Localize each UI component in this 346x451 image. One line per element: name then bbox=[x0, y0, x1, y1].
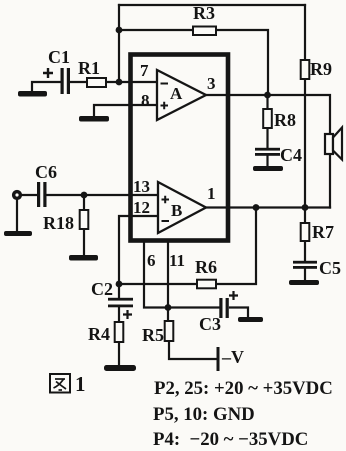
node pin6/pin11/C3 bbox=[165, 304, 172, 311]
capacitor C5 plates bbox=[293, 261, 317, 269]
wire C6 to pin 13 bbox=[46, 194, 158, 196]
wire input A: ground to C1 bbox=[32, 82, 61, 91]
capacitor C1 plates bbox=[61, 68, 71, 94]
svg-text:1: 1 bbox=[75, 372, 86, 396]
svg-text:R7: R7 bbox=[312, 222, 334, 242]
wire C1 to R1 bbox=[70, 81, 87, 83]
ground below C5 bbox=[289, 280, 319, 285]
ground below C4 bbox=[253, 166, 283, 171]
resistor R18 bbox=[80, 210, 89, 229]
wire input B terminal to C6 bbox=[22, 194, 37, 196]
wire terminal ground drop bbox=[16, 200, 18, 231]
wire pin 6 down bbox=[144, 243, 168, 308]
node output A / R8 bbox=[264, 92, 271, 99]
svg-text:B: B bbox=[171, 201, 182, 220]
svg-text:8: 8 bbox=[141, 91, 150, 110]
svg-text:11: 11 bbox=[169, 251, 185, 270]
battery terminal -V bbox=[217, 347, 220, 371]
resistor R4 bbox=[115, 322, 124, 342]
svg-text:12: 12 bbox=[133, 198, 150, 217]
svg-text:–V: –V bbox=[221, 347, 244, 367]
svg-text:6: 6 bbox=[147, 251, 156, 270]
wire R4 to ground bbox=[118, 342, 120, 365]
svg-text:R1: R1 bbox=[78, 58, 100, 78]
svg-text:C1: C1 bbox=[48, 47, 70, 67]
wire vertical left feedback x=119 bbox=[118, 5, 120, 82]
svg-text:R3: R3 bbox=[193, 3, 215, 23]
svg-text:R4: R4 bbox=[88, 324, 110, 344]
capacitor C3 plus sign bbox=[229, 291, 238, 300]
svg-text:13: 13 bbox=[133, 177, 150, 196]
wire output A pin 3 to speaker top bbox=[206, 95, 330, 134]
svg-text:P2, 25: +20 ~ +35VDC: P2, 25: +20 ~ +35VDC bbox=[154, 378, 333, 399]
svg-text:R8: R8 bbox=[274, 110, 296, 130]
node output B / R6 bbox=[253, 204, 260, 211]
input terminal J1 bbox=[12, 190, 22, 200]
capacitor C3 plates bbox=[219, 298, 229, 318]
op-amp U1B plus sign bbox=[162, 196, 170, 204]
wire R5 to -V battery bbox=[169, 341, 218, 359]
resistor R5 bbox=[165, 321, 174, 341]
node C6/R18 bbox=[81, 192, 88, 199]
svg-text:R18: R18 bbox=[43, 213, 74, 233]
IC package U1 outline bbox=[131, 55, 229, 241]
node output B / R7 bbox=[302, 204, 309, 211]
svg-text:R6: R6 bbox=[195, 257, 217, 277]
junction node dots bbox=[81, 27, 309, 311]
ground below R4 bbox=[104, 365, 136, 371]
wire R8 to C4 bbox=[266, 128, 268, 166]
resistor R1 bbox=[87, 78, 106, 87]
wire speaker through bbox=[329, 134, 331, 208]
node pin12 / C2 / R6 wire bbox=[116, 281, 123, 288]
op-amp U1B minus sign bbox=[162, 220, 170, 222]
wire R8 lead from output A node bbox=[266, 95, 268, 109]
wire pin 8 to ground bbox=[94, 105, 157, 116]
capacitor C2 plus sign bbox=[123, 310, 132, 319]
resistor R7 bbox=[301, 223, 310, 241]
svg-text:C5: C5 bbox=[319, 258, 341, 278]
svg-text:R9: R9 bbox=[310, 59, 332, 79]
ground at C1 input bbox=[18, 91, 47, 97]
wire R3 right segment down to output A node bbox=[216, 30, 268, 95]
wire R6 right vertical to output B node bbox=[216, 208, 256, 285]
wire R9 top connection bbox=[304, 5, 306, 60]
resistor R6 bbox=[197, 280, 216, 289]
svg-text:A: A bbox=[170, 84, 183, 103]
svg-text:R5: R5 bbox=[142, 325, 164, 345]
svg-text:C4: C4 bbox=[280, 145, 302, 165]
wire C2 leads bbox=[118, 284, 120, 322]
svg-text:1: 1 bbox=[207, 184, 216, 203]
op-amp U1A minus sign bbox=[161, 83, 169, 85]
svg-text:C6: C6 bbox=[35, 162, 57, 182]
op-amp U1A plus sign bbox=[161, 102, 169, 110]
wire output B pin 1 to speaker bottom bbox=[206, 206, 330, 208]
figure caption 图 1 (drawn glyph) bbox=[50, 374, 70, 393]
svg-text:3: 3 bbox=[207, 74, 216, 93]
resistor R3 bbox=[193, 27, 216, 36]
svg-text:P4: −20 ~ −35VDC: P4: −20 ~ −35VDC bbox=[153, 429, 308, 450]
wire pin 12 route to C2 bbox=[119, 216, 157, 284]
capacitor C4 plates bbox=[255, 148, 280, 156]
node R3/feedback top bbox=[116, 27, 123, 34]
ground at pin 8 bbox=[79, 116, 109, 122]
wire R1 to pin 7 bbox=[106, 81, 157, 83]
svg-text:P5, 10: GND: P5, 10: GND bbox=[153, 404, 255, 425]
wire C2 to R6 bbox=[119, 283, 197, 285]
svg-text:C2: C2 bbox=[91, 279, 113, 299]
wire top rail from node 7 feedback to R9 bbox=[119, 4, 305, 6]
ground below R18 bbox=[69, 255, 98, 261]
op-amp U1B triangle bbox=[158, 182, 206, 233]
wire R9 bottom to output B node bbox=[304, 79, 306, 208]
speaker LS1 bbox=[325, 128, 342, 160]
wire R3 left segment bbox=[119, 29, 193, 31]
wire C3 to ground bbox=[230, 308, 248, 318]
capacitor C1 plus sign bbox=[43, 68, 53, 78]
node pin7/R1 bbox=[116, 79, 123, 86]
capacitor C2 plates bbox=[108, 298, 133, 308]
ground below terminal bbox=[4, 231, 32, 236]
resistor R8 bbox=[263, 109, 272, 128]
svg-text:7: 7 bbox=[140, 61, 149, 80]
op-amp U1A triangle bbox=[157, 70, 206, 120]
wire pin 11 down to R5 bbox=[167, 243, 169, 321]
resistor R9 bbox=[301, 60, 310, 79]
ground at C3 bbox=[238, 317, 263, 322]
wire R18 drop bbox=[83, 195, 85, 255]
capacitor C6 plates bbox=[37, 182, 47, 207]
svg-text:C3: C3 bbox=[199, 314, 221, 334]
wire R7 to C5 bbox=[304, 208, 306, 281]
wire node 6/11 to C3 bbox=[168, 306, 219, 308]
